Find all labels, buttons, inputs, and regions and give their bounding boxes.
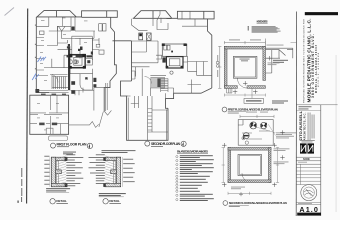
detail 2 : leader lines left [106, 156, 116, 185]
enlarged elevator plan 2 : fan circles [243, 122, 267, 139]
first floor plan outline [30, 11, 118, 135]
enlarged elevator plan 2 : small dark dot [243, 138, 244, 139]
svg-text:NONE: NONE [303, 158, 310, 161]
svg-text:FIRST FLOOR ENLARGED ELEVATOR: FIRST FLOOR ENLARGED ELEVATOR PLAN [228, 108, 278, 112]
enlarged elevator plan 2 : small circle fixture [245, 141, 248, 144]
enlarged elevator plan 1 : title circle [222, 107, 227, 112]
architect seal circle [301, 185, 317, 201]
title block top black bar [305, 12, 338, 15]
note text above details [63, 150, 136, 154]
first floor plan interior walls [36, 17, 110, 111]
first floor plan north arrow [87, 143, 92, 148]
enlarged elevator plan 1 : room label texts right [272, 60, 288, 104]
second floor plan interior walls [127, 11, 212, 140]
enlarged elevator plan 1 : right wall hatched [263, 46, 266, 80]
enlarged elevator plan 2 : annotation below [231, 187, 245, 190]
enlarged elevator plan 2 : right wall hatched [268, 148, 271, 183]
title block left border [295, 12, 297, 217]
left sheet border line [27, 9, 28, 204]
enlarged elevator plan 1 : bottom dimension line [224, 94, 265, 97]
blue handwriting marks [32, 57, 46, 81]
enlarged elevator plan 2 : fan dark blades [244, 123, 267, 137]
svg-text:A1.0: A1.0 [299, 205, 318, 214]
detail 2 : scale text [109, 202, 121, 205]
enlarged elevator plan 1 : top wall hatched [224, 46, 265, 49]
enlarged elevator plan 2 : dimension row above [240, 115, 274, 118]
svg-text:ENLARGED ELEVATOR PLAN NOTES: ENLARGED ELEVATOR PLAN NOTES [177, 151, 208, 154]
architect logo black squares [300, 143, 314, 153]
svg-text:PROPOSED INTERIOR RENOVATIONS: PROPOSED INTERIOR RENOVATIONS TO EXISTIN… [303, 19, 306, 103]
keyed notes list [248, 26, 281, 32]
scale box [296, 157, 320, 164]
window tag circles right of plan 2 [216, 61, 219, 67]
svg-text:FIRST FLOOR PLAN: FIRST FLOOR PLAN [57, 142, 88, 146]
detail 1 : title circle [50, 199, 55, 204]
first floor small dark door marks [68, 27, 83, 51]
enlarged elevator plan 2 : title underline and scale [229, 204, 249, 206]
enlarged elevator plan 1 : machine room label inside [240, 59, 250, 62]
second floor gray elevator lobby fill [145, 77, 165, 89]
enlarged elevator plan 1 : stair marks below left [227, 88, 233, 93]
enlarged elevator plan 1 : rotated dimension text left [217, 55, 218, 77]
enlarged elevator plan 2 : text above dimension row [246, 111, 268, 114]
detail 1 : wall section hatched [51, 157, 67, 187]
enlarged elevator plan 2 : bottom wall hatched [228, 180, 271, 183]
first floor dark wall horizontal band [67, 55, 93, 57]
left wall door nubs [35, 25, 36, 70]
svg-text:ZITO-RUSSELL: ZITO-RUSSELL [298, 110, 303, 140]
second floor elevator shaft dark room [166, 57, 183, 69]
first floor small door dots [67, 46, 81, 51]
enlarged elevator plan 1 : cab door opening [238, 79, 248, 89]
second floor machine room dark marks [162, 43, 187, 52]
second floor plan north arrow [181, 141, 186, 146]
second floor plan outline [113, 11, 215, 141]
svg-text:DETAIL: DETAIL [109, 199, 120, 203]
dimension cross above title 2 [239, 192, 243, 196]
enlarged elevator plan 2 : elevator cab [238, 155, 262, 176]
bottom black bar [297, 213, 321, 216]
svg-text:SECOND FLOOR PLAN: SECOND FLOOR PLAN [151, 142, 181, 146]
first floor plan scale text [57, 146, 69, 147]
left margin vertical text [21, 168, 22, 202]
second floor machine room [162, 44, 187, 56]
revision table lines [296, 164, 320, 184]
enlarged elevator plan 2 : cross marks [222, 130, 285, 187]
enlarged elevator plan 1 : dimension line left [218, 46, 221, 88]
enlarged elevator plan 1 : left wall hatched [224, 46, 227, 88]
svg-text:ARCHITECTS, P.C.: ARCHITECTS, P.C. [303, 112, 307, 140]
enlarged elevator plan 2 : cab door opening [242, 173, 251, 183]
detail 1 : leader lines right [56, 156, 66, 186]
second floor window box symbols [139, 33, 151, 40]
svg-text:MOBILE, ALABAMA: MOBILE, ALABAMA [317, 52, 320, 87]
canopy rounded rect below plan 1 [49, 136, 68, 141]
detail 2 : annotation text right with dimension line [122, 157, 134, 187]
second floor stair dark blob [162, 57, 165, 62]
detail 1 : annotation text left with dimension line [44, 156, 50, 187]
first floor elevator dark room [69, 54, 88, 80]
architect firm tiny text rows [300, 140, 315, 142]
keyed notes heading underline [257, 22, 268, 24]
first floor small door fixture [96, 44, 100, 47]
first floor plan small dark fixtures [35, 52, 96, 96]
enlarged elevator plan 1 : title underline and scale [228, 111, 248, 113]
left margin mark 3 [17, 201, 19, 203]
architect address vertical micro text [308, 113, 315, 141]
enlarged elevator plan 1 : elevator cab [233, 56, 257, 78]
enlarged elevator plan 1 : dimension text top [229, 39, 261, 40]
detail 2 : annotation text left [89, 154, 106, 183]
enlarged elevator plan notes list [176, 155, 214, 201]
first floor lower-left block interior [30, 95, 69, 134]
enlarged elevator plan 2 : leader text right of machine room [276, 132, 296, 138]
enlarged elevator plan 2 : annotation dashes right [274, 148, 290, 164]
second floor small circle fixture [170, 71, 173, 74]
enlarged elevator plan 1 : annotation dashes right [267, 45, 284, 66]
first floor dark corridor wall [68, 46, 70, 90]
first floor plan title circle [51, 143, 56, 148]
first floor break line [69, 83, 112, 127]
right page edge shadow [335, 55, 336, 212]
detail 1 : bottom note underlined [46, 188, 70, 191]
svg-text:SECOND FLOOR ENLARGED ELEVATOR: SECOND FLOOR ENLARGED ELEVATOR PLAN [229, 201, 287, 205]
seal bottom lines [296, 202, 320, 204]
second floor plan title circle [145, 141, 150, 146]
extra interior walls plan 1 lower band [36, 17, 94, 113]
enlarged elevator plan 2 : machine room outline [238, 120, 273, 146]
enlarged elevator plan notes heading underline [177, 152, 208, 154]
enlarged elevator plan 2 : side dimension lines [222, 148, 280, 195]
first floor elevator cab symbol [75, 60, 79, 64]
detail 1 : annotation text right [66, 154, 83, 186]
title block divider line [296, 104, 337, 106]
enlarged elevator plan 2 : machine room interior marks [242, 131, 270, 140]
enlarged elevator plan 1 : boxed label below [244, 88, 264, 103]
title block inner border lower [320, 105, 322, 216]
detail 2 : title circle [103, 199, 108, 204]
project number rows [299, 106, 312, 109]
enlarged elevator plan 1 : wall extension right with door [265, 39, 293, 74]
pen mark top-left corner [5, 8, 15, 16]
svg-text:DETAIL: DETAIL [56, 199, 67, 203]
leader tick near title block [291, 41, 297, 43]
seal bottom micro text [298, 202, 312, 205]
second floor stair treads [161, 79, 169, 93]
enlarged elevator plan 1 : dimension line top [224, 41, 265, 44]
enlarged elevator plan 2 : top wall hatched [228, 148, 271, 151]
detail 1 : scale text [56, 202, 68, 205]
detail 2 : wall section hatched [103, 157, 120, 187]
enlarged elevator plan 2 : fan leader lines [254, 124, 276, 135]
enlarged elevator plan 2 : title circle [223, 201, 228, 206]
detail 2 : bottom note underlined [99, 193, 126, 196]
first floor lower-left door blobs [39, 123, 57, 126]
second floor plan scale text [151, 146, 163, 147]
enlarged elevator plan 2 : left wall hatched [228, 148, 231, 183]
room label specks [37, 18, 88, 131]
enlarged elevator plan 1 : bottom wall hatched [224, 86, 265, 89]
enlarged elevator plan 1 : cross marks [233, 56, 272, 94]
